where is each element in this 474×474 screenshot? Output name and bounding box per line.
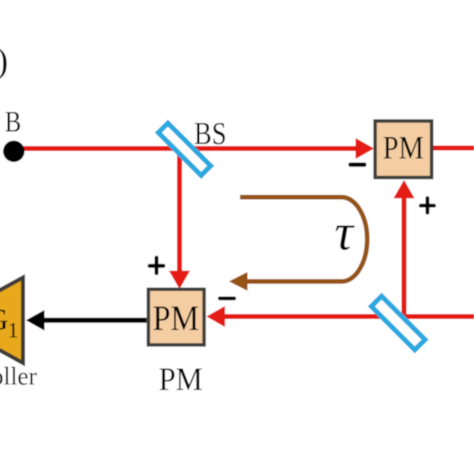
svg-text:PM: PM xyxy=(383,131,424,167)
svg-text:B: B xyxy=(5,106,22,139)
svg-text:PM: PM xyxy=(159,362,203,398)
svg-text:oller: oller xyxy=(0,364,37,391)
svg-text:PM: PM xyxy=(153,298,200,338)
svg-text:BS: BS xyxy=(194,115,227,151)
svg-text:τ: τ xyxy=(335,205,356,262)
svg-text:): ) xyxy=(0,41,8,81)
svg-text:1: 1 xyxy=(8,318,19,343)
